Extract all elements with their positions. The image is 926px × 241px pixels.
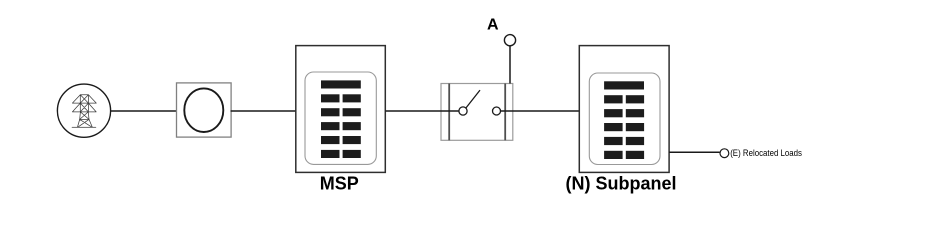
MSP inner panel xyxy=(305,72,376,164)
subpanel breaker row 2 xyxy=(604,95,644,103)
wire W2 meter to MSP xyxy=(231,110,296,112)
subpanel breaker row 3 xyxy=(604,109,644,117)
switch blade (open) xyxy=(466,90,480,108)
svg-text:(E) Relocated Loads: (E) Relocated Loads xyxy=(730,148,802,158)
subpanel breaker row 5 xyxy=(604,137,644,145)
legs xyxy=(77,119,92,127)
svg-text:MSP: MSP xyxy=(320,174,359,194)
label MSP xyxy=(320,174,359,194)
crossarm 2 xyxy=(72,103,96,112)
label (E) Relocated Loads xyxy=(730,148,802,158)
label (N) Subpanel xyxy=(566,174,677,194)
switch left contact xyxy=(459,107,467,115)
switch right terminal bar xyxy=(504,84,506,141)
subpanel main breaker bar xyxy=(604,81,644,89)
MSP breaker row 5 xyxy=(321,136,361,144)
relocated loads terminal circle xyxy=(720,149,729,158)
meter box xyxy=(177,83,232,137)
wire W4 switch right contact to subpanel xyxy=(501,110,580,112)
utility source circle U xyxy=(57,84,110,137)
switch left terminal bar xyxy=(448,84,450,141)
label A xyxy=(487,17,499,34)
wire W5 subpanel to relocated loads xyxy=(669,151,720,153)
MSP breaker row 2 xyxy=(321,94,361,102)
MSP breaker row 6 xyxy=(321,150,361,158)
utility tower icon xyxy=(72,95,96,128)
svg-text:(N) Subpanel: (N) Subpanel xyxy=(566,174,677,194)
ground line xyxy=(72,126,96,128)
MSP main breaker bar xyxy=(321,80,361,88)
meter dial circle xyxy=(184,88,223,132)
switch SW enclosure xyxy=(441,84,513,141)
MSP outer enclosure xyxy=(296,46,386,173)
top cage xyxy=(80,95,88,103)
wire W1 utility to meter xyxy=(111,110,177,112)
svg-text:A: A xyxy=(487,17,499,34)
MSP breaker row 4 xyxy=(321,122,361,130)
crossarm 1 xyxy=(72,95,96,103)
waist section xyxy=(80,112,90,120)
subpanel breaker row 4 xyxy=(604,123,644,131)
subpanel outer enclosure xyxy=(579,46,669,173)
middle cage xyxy=(80,103,88,112)
subpanel breaker row 6 xyxy=(604,151,644,159)
node A terminal circle xyxy=(504,35,515,46)
MSP breaker row 3 xyxy=(321,108,361,116)
wire to node A xyxy=(509,46,511,84)
wire W3 MSP to switch left contact xyxy=(386,110,460,112)
switch right contact xyxy=(493,107,501,115)
subpanel inner panel xyxy=(589,73,660,165)
